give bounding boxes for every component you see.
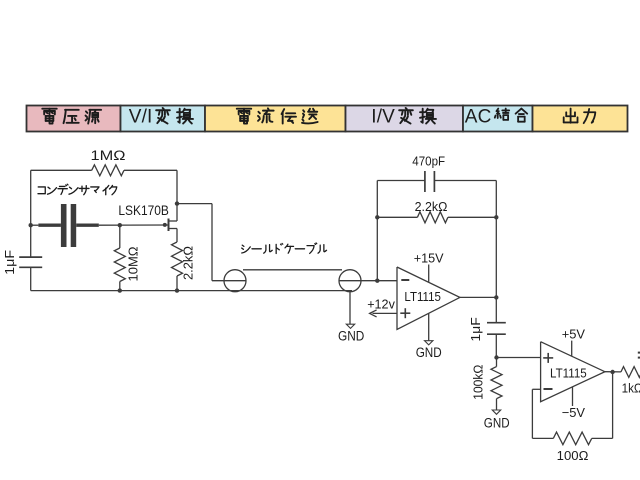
wire right connector to opamp bbox=[339, 280, 397, 282]
capacitor C2 470pF plates bbox=[425, 171, 435, 192]
wire +15V stub bbox=[428, 265, 430, 283]
wire node to U2 plus bbox=[497, 357, 541, 359]
resistor R6 1k bbox=[621, 367, 640, 378]
node A mic junction dot bbox=[29, 223, 33, 227]
wire mic thick lead left bbox=[38, 223, 61, 226]
header box 出力 bbox=[533, 106, 628, 132]
node F bias junction dot bbox=[494, 355, 498, 359]
wire into left connector bbox=[212, 280, 246, 282]
label LT1115 U2 bbox=[550, 365, 587, 380]
header label 出力 bbox=[564, 109, 596, 124]
header box 電流伝送 bbox=[205, 106, 346, 132]
resistor R2 10M bbox=[114, 225, 125, 290]
header label I/V変換 bbox=[371, 107, 436, 128]
svg-text:LT1115: LT1115 bbox=[404, 289, 441, 304]
resistor R7 100 feedback bbox=[553, 432, 591, 445]
label +12v bbox=[367, 296, 395, 311]
svg-text:+5V: +5V bbox=[562, 327, 586, 342]
wire top loop left segment bbox=[31, 169, 92, 171]
header label AC結合 bbox=[465, 107, 527, 128]
wire top loop right segment bbox=[124, 169, 177, 171]
label シールドケーブル bbox=[242, 243, 327, 253]
capacitor mic element right plate bbox=[71, 204, 77, 247]
svg-text:GND: GND bbox=[416, 345, 442, 360]
wire gate net bbox=[31, 224, 169, 226]
wire plus input bbox=[373, 312, 398, 314]
wire feedback left vertical bbox=[376, 181, 378, 281]
svg-text:1kΩ: 1kΩ bbox=[622, 380, 640, 395]
label GND 100k bbox=[484, 416, 510, 431]
svg-text:V/I: V/I bbox=[129, 107, 153, 128]
svg-text:+12v: +12v bbox=[367, 296, 395, 311]
wire left vertical lower bbox=[30, 267, 32, 290]
wire output down to cap bbox=[495, 297, 497, 322]
node feedback left dot bbox=[375, 215, 379, 219]
label 100Ω bbox=[557, 448, 589, 463]
svg-text:1μF: 1μF bbox=[2, 250, 17, 275]
label 2.2kΩ rotated bbox=[180, 246, 195, 280]
svg-text:2.2kΩ: 2.2kΩ bbox=[180, 246, 195, 280]
transistor Q1 source lead bbox=[169, 229, 178, 243]
transistor Q1 LSK170B gate bar bbox=[168, 219, 170, 232]
wire feedback right vertical bbox=[495, 181, 497, 298]
wire U2 feedback bottom left bbox=[532, 437, 553, 439]
svg-text:100Ω: 100Ω bbox=[557, 448, 589, 463]
op-amp U2 LT1115 triangle bbox=[541, 342, 605, 402]
label LT1115 U1 bbox=[404, 289, 441, 304]
header box AC結合 bbox=[463, 106, 533, 132]
ground shield arrow bbox=[346, 324, 354, 328]
svg-text:470pF: 470pF bbox=[412, 154, 445, 168]
label 470pF bbox=[412, 154, 445, 168]
wire bottom ground bus bbox=[31, 290, 352, 292]
svg-text:1MΩ: 1MΩ bbox=[91, 148, 126, 163]
node feedback right dot bbox=[494, 215, 498, 219]
label 100kΩ rotated bbox=[470, 364, 485, 399]
wire left vertical upper bbox=[30, 170, 32, 257]
resistor R3 2.2k source bbox=[172, 242, 183, 291]
wire U2 feedback bottom right bbox=[592, 437, 613, 439]
label +15V bbox=[414, 250, 444, 265]
svg-text:+15V: +15V bbox=[414, 250, 444, 265]
ground 100k arrow bbox=[492, 410, 500, 414]
capacitor C3 1uF plates bbox=[487, 323, 506, 335]
node B 10M top junction dot bbox=[118, 223, 122, 227]
op-amp U1 plus symbol bbox=[400, 308, 410, 318]
op-amp U1 minus symbol bbox=[401, 279, 409, 281]
label 1kΩ bbox=[622, 380, 640, 395]
svg-text:AC: AC bbox=[465, 107, 492, 128]
wire U1 gnd stub bbox=[428, 313, 430, 340]
header label 電圧源 bbox=[42, 109, 101, 124]
label 1μF coupling rotated bbox=[468, 317, 483, 342]
wire cable shield top bbox=[243, 269, 342, 271]
wire U2 feedback up bbox=[531, 389, 533, 438]
cable connector right circle bbox=[339, 270, 361, 292]
resistor R5 100k bbox=[491, 358, 502, 411]
wire cable feed vertical bbox=[211, 204, 213, 281]
wire feedback mid right bbox=[448, 216, 496, 218]
wire feedback top right bbox=[434, 180, 496, 182]
wire drain vertical from top loop bbox=[176, 170, 178, 203]
node 2.2k bottom junction dot bbox=[175, 288, 179, 292]
capacitor mic element left plate bbox=[61, 204, 67, 247]
svg-text:10MΩ: 10MΩ bbox=[125, 246, 140, 281]
resistor R4 2.2k feedback bbox=[417, 212, 448, 223]
node G output junction dot bbox=[610, 370, 614, 374]
wire U2 minus input bbox=[532, 388, 540, 390]
label -5V bbox=[562, 405, 586, 420]
header label 電流伝送 bbox=[237, 108, 318, 123]
label 1MΩ bbox=[91, 148, 126, 163]
wire +5V stub bbox=[571, 341, 573, 357]
clipped label fragment right edge bbox=[638, 353, 640, 358]
header label V/I変換 bbox=[129, 107, 193, 128]
label 1μF rotated bbox=[2, 250, 17, 275]
wire drain to cable horizontal bbox=[177, 203, 212, 205]
op-amp U1 LT1115 triangle bbox=[397, 267, 460, 329]
svg-text:GND: GND bbox=[338, 329, 365, 344]
node C drain junction dot bbox=[175, 201, 179, 205]
svg-text:I/V: I/V bbox=[371, 107, 395, 128]
wire shield drop bbox=[349, 292, 351, 325]
label LSK170B bbox=[118, 203, 168, 218]
svg-text:1μF: 1μF bbox=[468, 317, 483, 342]
node 10M bottom junction dot bbox=[118, 288, 122, 292]
resistor R1 1M zigzag bbox=[92, 165, 124, 176]
transistor Q1 drain lead bbox=[169, 204, 178, 221]
op-amp U2 plus symbol bbox=[543, 353, 553, 363]
label 10MΩ rotated bbox=[125, 246, 140, 281]
wire U2 output bbox=[605, 371, 621, 373]
wire feedback mid left bbox=[377, 216, 417, 218]
wire feedback top left bbox=[377, 180, 425, 182]
ground U1 arrow bbox=[425, 341, 433, 345]
header box I/V変換 bbox=[346, 106, 464, 132]
svg-text:LT1115: LT1115 bbox=[550, 365, 587, 380]
arrowhead +12v bbox=[370, 310, 377, 317]
wire U2 feedback down bbox=[612, 372, 614, 438]
op-amp U2 minus symbol bbox=[544, 388, 553, 390]
svg-text:2.2kΩ: 2.2kΩ bbox=[415, 199, 448, 214]
capacitor C1 1uF plates bbox=[19, 257, 42, 267]
svg-text:GND: GND bbox=[484, 416, 510, 431]
wire cap to node bbox=[495, 334, 497, 357]
label GND U1 bbox=[416, 345, 442, 360]
wire U1 output bbox=[460, 296, 496, 298]
label +5V bbox=[562, 327, 586, 342]
label コンデンサマイク bbox=[38, 184, 117, 195]
header box 電圧源 bbox=[27, 106, 121, 132]
cable connector left circle bbox=[224, 270, 246, 292]
svg-text:100kΩ: 100kΩ bbox=[470, 364, 485, 399]
label 2.2kΩ feedback bbox=[415, 199, 448, 214]
header box V/I変換 bbox=[121, 106, 206, 132]
svg-text:−5V: −5V bbox=[562, 405, 586, 420]
svg-text:LSK170B: LSK170B bbox=[118, 203, 168, 218]
label GND shield bbox=[338, 329, 365, 344]
wire -5V stub bbox=[572, 387, 574, 406]
wire mic thick lead right bbox=[76, 223, 99, 226]
node D minus input junction dot bbox=[375, 279, 379, 283]
node E output junction dot bbox=[494, 295, 498, 299]
node gate dot bbox=[163, 223, 167, 227]
